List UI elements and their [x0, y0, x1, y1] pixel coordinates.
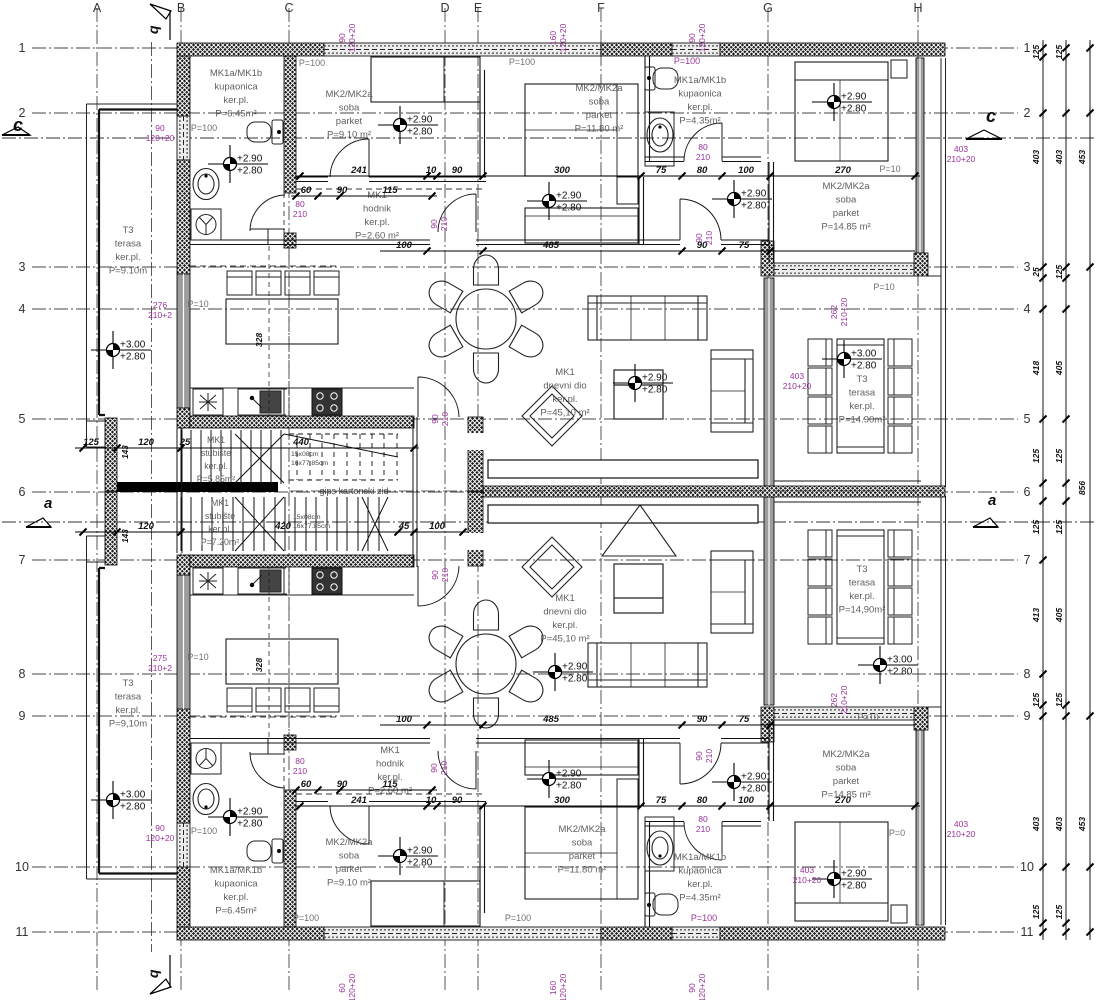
wall top hatch 3 [720, 43, 945, 56]
wall kitchen south [190, 416, 414, 428]
mag kitchen door lower [430, 568, 450, 582]
mag right glass upper [947, 144, 976, 164]
svg-text:403: 403 [954, 819, 968, 829]
elevation bedroomR-door lower [712, 763, 772, 801]
door hodnik-living [438, 194, 476, 232]
mag kitchen door upper [430, 412, 450, 426]
stairs upper run treads [181, 430, 281, 484]
svg-text:+3.00: +3.00 [120, 790, 146, 801]
wall bathroom1 east lower [284, 233, 296, 248]
armchair [711, 350, 753, 432]
svg-text:B: B [177, 1, 185, 15]
svg-text:10: 10 [15, 860, 29, 874]
svg-text:P=10: P=10 [187, 299, 208, 309]
svg-text:210+20: 210+20 [947, 829, 976, 839]
dimension chain right 3 [1087, 40, 1094, 940]
svg-text:120+20: 120+20 [697, 23, 707, 52]
svg-text:210: 210 [439, 761, 449, 775]
section line c-c [2, 137, 1094, 139]
svg-text:300: 300 [554, 795, 571, 806]
svg-text:210: 210 [696, 824, 710, 834]
dimension chain right 2 [1063, 40, 1070, 940]
svg-text:125: 125 [1054, 693, 1064, 707]
svg-text:E: E [474, 1, 482, 15]
glazing living room south rail [488, 460, 758, 478]
svg-text:210: 210 [439, 217, 449, 231]
svg-text:+2.80: +2.80 [120, 352, 146, 363]
door gap edge dashed bathroom1 [283, 193, 285, 233]
nightstand bedroom-middle [617, 177, 638, 204]
svg-text:125: 125 [1031, 520, 1041, 534]
mag bathroom2 door upper b [694, 231, 714, 245]
wall left hatch 2 [177, 160, 190, 274]
bed bedroom-right pillow [795, 79, 888, 81]
svg-text:+2.80: +2.80 [556, 203, 582, 214]
svg-text:143: 143 [121, 445, 130, 459]
svg-text:+2.80: +2.80 [562, 674, 588, 685]
svg-text:+2.80: +2.80 [407, 127, 433, 138]
elevation terrace-right lower [858, 646, 918, 684]
svg-text:7: 7 [1024, 553, 1031, 567]
kitchen hob [312, 389, 342, 415]
svg-text:210: 210 [696, 152, 710, 162]
stairs lower run treads [181, 497, 379, 551]
svg-text:403: 403 [1031, 150, 1041, 165]
svg-text:125: 125 [1054, 449, 1064, 463]
wall hodnik south [296, 240, 430, 245]
svg-text:210: 210 [293, 209, 307, 219]
svg-text:+2.80: +2.80 [887, 667, 913, 678]
stair mid dashed line [289, 490, 945, 492]
wall central pillar [468, 417, 483, 491]
toilet bathroom1 [247, 120, 283, 144]
island chairs [227, 271, 339, 295]
svg-text:90: 90 [337, 779, 348, 790]
plant triangle lower living [602, 505, 676, 556]
elevation bedroom-left upper [378, 106, 438, 144]
svg-text:H: H [913, 1, 922, 15]
elevation bedroomR-door upper [712, 180, 772, 218]
dimension chain right 1 [1040, 40, 1047, 940]
grid row 4 [32, 308, 1018, 310]
svg-text:125: 125 [1031, 905, 1041, 919]
dim line living lower [380, 722, 915, 729]
svg-text:125: 125 [1054, 905, 1064, 919]
svg-text:7: 7 [19, 553, 26, 567]
svg-text:+2.80: +2.80 [841, 881, 867, 892]
dim line hodnik upper [291, 193, 437, 200]
kitchen unit sink-star [193, 389, 223, 415]
svg-text:25: 25 [179, 437, 191, 448]
mag hodnik door lower [429, 761, 449, 775]
svg-text:5: 5 [1024, 412, 1031, 426]
svg-text:125: 125 [1054, 265, 1064, 279]
svg-text:120+20: 120+20 [146, 833, 175, 843]
svg-text:45: 45 [398, 521, 410, 532]
svg-text:80: 80 [698, 814, 708, 824]
svg-text:100: 100 [429, 521, 446, 532]
grid row 6 [32, 491, 1018, 493]
grid row 11 [32, 931, 1018, 933]
svg-text:120: 120 [138, 521, 155, 532]
elevation living upper [613, 364, 673, 402]
svg-text:8: 8 [1024, 667, 1031, 681]
svg-text:c: c [986, 106, 996, 126]
door hodnik-bedroomR [680, 199, 721, 240]
bed bedroom-middle split [525, 129, 617, 131]
svg-text:485: 485 [542, 714, 560, 725]
svg-text:15x08cm: 15x08cm [291, 451, 319, 458]
wall bedroom-left south [296, 177, 328, 182]
svg-text:210: 210 [293, 766, 307, 776]
terrace table [837, 339, 884, 453]
mag bottom G [687, 973, 707, 1000]
mag bathroom1 door lower [293, 756, 307, 776]
svg-text:+2.90: +2.90 [407, 115, 433, 126]
svg-text:143: 143 [121, 529, 130, 543]
svg-text:+3.00: +3.00 [887, 655, 913, 666]
bed bedroom-middle [525, 84, 638, 176]
black wall band middle stair [117, 482, 278, 492]
grid row 1 [32, 47, 1018, 49]
svg-text:210+2: 210+2 [148, 310, 172, 320]
svg-text:210: 210 [704, 749, 714, 763]
svg-text:60: 60 [337, 983, 347, 993]
elevation terrace-right upper [822, 340, 882, 378]
terrace edge line [774, 480, 921, 482]
svg-text:403: 403 [790, 371, 804, 381]
svg-text:gips kartonski zid: gips kartonski zid [319, 486, 388, 496]
terrace left outline [87, 104, 178, 447]
wall above dashed bedrooms [296, 188, 486, 190]
svg-text:60: 60 [301, 779, 312, 790]
svg-text:120+20: 120+20 [558, 23, 568, 52]
wall left hatch 1 [177, 56, 190, 116]
wall bathroom2 south 2 [722, 157, 761, 162]
svg-text:16x77.85cm: 16x77.85cm [291, 460, 328, 467]
svg-text:11: 11 [16, 925, 29, 939]
svg-text:10: 10 [426, 795, 437, 806]
svg-text:1: 1 [1024, 41, 1031, 55]
svg-text:P=100: P=100 [191, 826, 217, 836]
svg-text:P=100: P=100 [674, 56, 700, 66]
svg-text:P=10: P=10 [187, 652, 208, 662]
svg-text:413: 413 [1031, 608, 1041, 623]
svg-text:125: 125 [1054, 520, 1064, 534]
svg-text:418: 418 [1031, 361, 1041, 376]
section line a-a [2, 521, 1094, 523]
svg-text:328: 328 [254, 333, 264, 347]
stairs lower direction lines [235, 497, 388, 551]
nightstand bedroom-right [891, 60, 907, 78]
wall hodnik east south [643, 240, 680, 245]
door kitchen entry [418, 377, 459, 417]
svg-text:75: 75 [739, 714, 750, 725]
svg-text:75: 75 [656, 795, 667, 806]
svg-text:C: C [284, 1, 293, 15]
dim line stairs upper [75, 445, 419, 452]
svg-text:2: 2 [1024, 106, 1031, 120]
svg-text:D: D [440, 1, 449, 15]
mag left window lower [146, 823, 175, 843]
svg-text:420: 420 [274, 521, 292, 532]
section marker c right [966, 106, 1002, 139]
svg-text:100: 100 [738, 795, 755, 806]
svg-text:10: 10 [426, 165, 437, 176]
mag terrace right lower [829, 685, 849, 714]
svg-text:120+20: 120+20 [347, 23, 357, 52]
bed bedroom-left [371, 57, 480, 102]
svg-text:3: 3 [1024, 260, 1031, 274]
wall bedroom-mid east [639, 177, 644, 245]
svg-text:100: 100 [396, 714, 413, 725]
svg-text:403: 403 [1054, 817, 1064, 832]
svg-text:P=100: P=100 [509, 57, 535, 67]
island table [226, 299, 338, 344]
svg-text:125: 125 [1031, 45, 1041, 59]
elevation terrace-left lower [91, 781, 151, 819]
svg-text:+2.80: +2.80 [851, 361, 877, 372]
svg-text:P=100: P=100 [191, 123, 217, 133]
wall bedroom-left south 2 [369, 177, 486, 182]
elevation bedroom-mid lower [812, 860, 872, 898]
section marker q bottom [145, 955, 171, 994]
svg-text:+2.80: +2.80 [741, 784, 767, 795]
svg-text:275: 275 [153, 653, 167, 663]
round table [456, 289, 516, 349]
kitchen zone dashed [190, 265, 340, 267]
dim line living upper [380, 248, 915, 255]
svg-text:403: 403 [1031, 817, 1041, 832]
section line q-q vertical [151, 42, 153, 952]
svg-text:3: 3 [19, 260, 26, 274]
svg-text:300: 300 [554, 165, 571, 176]
svg-text:90: 90 [337, 33, 347, 43]
mag terrace right upper [829, 297, 849, 326]
svg-text:90: 90 [337, 185, 348, 196]
shaft dashed left [268, 246, 270, 415]
grid column B [180, 8, 182, 992]
grid row 8 [32, 673, 1018, 675]
svg-text:75: 75 [739, 240, 750, 251]
svg-text:160: 160 [548, 981, 558, 995]
svg-text:80: 80 [697, 795, 708, 806]
svg-text:90: 90 [694, 751, 704, 761]
svg-text:90: 90 [687, 983, 697, 993]
wall hodnik east south 2 [721, 240, 769, 245]
svg-text:4: 4 [1024, 302, 1031, 316]
svg-text:+3.00: +3.00 [851, 349, 877, 360]
washbasin bathroom2 [647, 118, 673, 152]
svg-text:q: q [145, 969, 161, 978]
svg-text:+2.90: +2.90 [841, 869, 867, 880]
grid column E [477, 8, 479, 992]
kitchen sink unit [238, 389, 284, 415]
svg-text:+3.00: +3.00 [120, 340, 146, 351]
grid row 10 [32, 866, 1018, 868]
grid column F [600, 8, 602, 992]
grid row 3 [32, 266, 1018, 268]
svg-text:241: 241 [350, 795, 367, 806]
wall bathroom1 south [190, 240, 296, 245]
dim line bedrooms upper [295, 173, 920, 180]
mag bathroom1 door upper [293, 199, 307, 219]
svg-text:60: 60 [301, 185, 312, 196]
bed bedroom-right [795, 62, 888, 161]
mag bathroom2 door lower b [694, 749, 714, 763]
svg-text:P=0: P=0 [889, 828, 905, 838]
svg-text:+2.90: +2.90 [556, 769, 582, 780]
terrace right outline [941, 58, 946, 487]
dim line hodnik lower [291, 787, 437, 794]
boiler bathroom1 [191, 209, 221, 240]
svg-text:90: 90 [694, 233, 704, 243]
svg-text:90: 90 [687, 33, 697, 43]
svg-text:115: 115 [382, 185, 398, 196]
elevation bedroom-left lower [378, 837, 438, 875]
svg-text:+2.90: +2.90 [237, 807, 263, 818]
grid column G [767, 8, 769, 992]
grid row 2 [32, 112, 1018, 114]
bed bedroom-left split [443, 57, 445, 102]
slab band middle [483, 486, 945, 497]
svg-text:403: 403 [1054, 150, 1064, 165]
grid row 5 [32, 418, 1018, 420]
svg-text:125: 125 [1031, 449, 1041, 463]
round table chairs [424, 255, 547, 383]
svg-text:+2.80: +2.80 [407, 858, 433, 869]
wall top hatch 2 [601, 43, 672, 56]
stair hall outline [177, 417, 417, 567]
svg-text:856: 856 [1077, 481, 1087, 495]
svg-text:262: 262 [829, 305, 839, 319]
window top 1 [324, 43, 601, 56]
wall bedrooms divider [480, 70, 485, 177]
wall bathroom2 south [645, 157, 684, 162]
svg-text:+2.80: +2.80 [237, 819, 263, 830]
section marker a right [973, 492, 998, 527]
svg-text:210+20: 210+20 [793, 875, 822, 885]
grid column H [917, 8, 919, 992]
sofa [588, 296, 707, 340]
svg-text:9: 9 [19, 709, 26, 723]
svg-text:+2.90: +2.90 [562, 662, 588, 673]
window left P=100 [177, 116, 190, 160]
svg-text:100: 100 [738, 165, 755, 176]
elevation hodnik upper [527, 182, 587, 220]
mag left window upper [146, 123, 175, 143]
section marker c left [2, 115, 30, 135]
svg-text:125: 125 [1054, 45, 1064, 59]
svg-text:120: 120 [138, 437, 155, 448]
svg-text:P=10: P=10 [879, 164, 900, 174]
svg-text:120+20: 120+20 [146, 133, 175, 143]
stairs upper direction lines [235, 434, 398, 483]
mag bathroom2 door lower [696, 814, 710, 834]
kitchen flue dashed [269, 389, 289, 415]
svg-text:15x08cm: 15x08cm [293, 514, 321, 521]
svg-text:262: 262 [829, 693, 839, 707]
svg-text:+2.90: +2.90 [642, 373, 668, 384]
elevation bedroom-mid upper [812, 83, 872, 121]
grid column C [288, 8, 290, 992]
coffee table diamond [522, 386, 582, 446]
kitchen counter [190, 387, 414, 389]
mag top G [687, 23, 707, 52]
mag right glass lower [947, 819, 976, 839]
window right bedroom south [774, 263, 914, 276]
svg-text:125: 125 [83, 437, 100, 448]
svg-text:80: 80 [697, 165, 708, 176]
svg-text:90: 90 [430, 414, 440, 424]
terrace right top edge [928, 275, 941, 277]
svg-text:75: 75 [656, 165, 667, 176]
dim line bedrooms lower [295, 803, 920, 810]
svg-text:80: 80 [295, 199, 305, 209]
shaft dashed right [288, 246, 290, 415]
svg-text:q: q [145, 25, 161, 34]
svg-text:90: 90 [429, 763, 439, 773]
grid column A [96, 8, 98, 992]
svg-text:90: 90 [430, 570, 440, 580]
svg-text:328: 328 [254, 658, 264, 672]
svg-text:10: 10 [1020, 860, 1034, 874]
svg-text:80: 80 [698, 142, 708, 152]
svg-text:P=100: P=100 [505, 913, 531, 923]
wardrobe bedroom-middle [525, 208, 638, 243]
svg-text:a: a [988, 492, 996, 509]
svg-text:1: 1 [19, 41, 26, 55]
svg-text:80: 80 [295, 756, 305, 766]
svg-text:8: 8 [19, 667, 26, 681]
svg-text:210+20: 210+20 [947, 154, 976, 164]
svg-text:+2.90: +2.90 [841, 92, 867, 103]
svg-text:16x77.85cm: 16x77.85cm [293, 523, 330, 530]
svg-text:+2.80: +2.80 [642, 385, 668, 396]
door bathroom1 [250, 195, 285, 245]
svg-text:403: 403 [954, 144, 968, 154]
svg-text:c: c [13, 115, 23, 135]
grid row 9 [32, 715, 1018, 717]
svg-text:210+20: 210+20 [783, 381, 812, 391]
svg-text:120+20: 120+20 [347, 973, 357, 1000]
bed bedroom-right split [839, 80, 841, 161]
grid column D [444, 8, 446, 992]
svg-text:P=10: P=10 [857, 712, 878, 722]
pillar left shared [105, 418, 117, 491]
svg-text:125: 125 [1031, 693, 1041, 707]
svg-text:115: 115 [382, 779, 398, 790]
svg-text:a: a [44, 495, 52, 512]
svg-text:90: 90 [697, 714, 708, 725]
svg-text:90: 90 [155, 823, 165, 833]
svg-text:5: 5 [19, 412, 26, 426]
wall bathroom2 west [645, 56, 650, 162]
svg-text:+2.80: +2.80 [120, 802, 146, 813]
svg-text:120+20: 120+20 [558, 973, 568, 1000]
svg-text:4: 4 [19, 302, 26, 316]
mag top E [548, 23, 568, 52]
door bathroom2 [684, 123, 722, 161]
svg-text:276: 276 [153, 300, 167, 310]
svg-text:270: 270 [834, 165, 852, 176]
svg-text:210: 210 [440, 568, 450, 582]
svg-text:270: 270 [834, 795, 852, 806]
svg-text:210: 210 [704, 231, 714, 245]
sink cabinet bathroom2 [645, 112, 674, 166]
svg-text:F: F [597, 1, 605, 15]
mag left glass upper [148, 300, 172, 320]
